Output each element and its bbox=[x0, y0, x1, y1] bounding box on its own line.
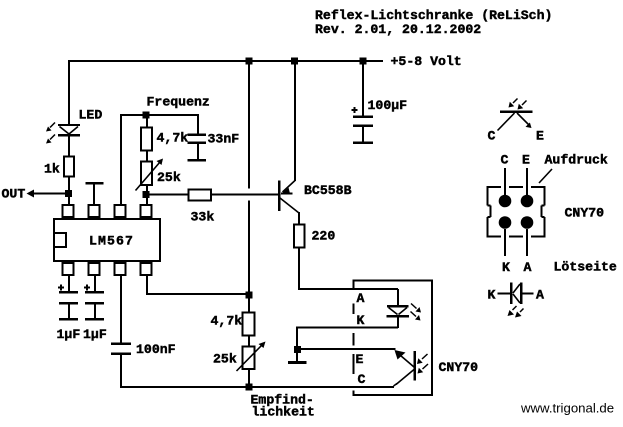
wire: pin 7 down to C3 bbox=[120, 275, 122, 343]
wire: K to ground corner bbox=[297, 328, 398, 351]
wire: junction right then down to C5 bbox=[147, 115, 198, 134]
svg-text:Frequenz: Frequenz bbox=[147, 95, 210, 110]
wire: rail drop to R6 lower segment bbox=[248, 201, 250, 297]
svg-text:A: A bbox=[357, 291, 365, 306]
U1 bottom pin box 7 bbox=[115, 263, 126, 275]
Aufdruck pointer line bbox=[539, 169, 552, 183]
svg-text:25k: 25k bbox=[157, 170, 181, 185]
Q2 incident light arrows bbox=[417, 354, 428, 374]
svg-text:LM567: LM567 bbox=[89, 234, 134, 249]
package pin stubs bbox=[505, 168, 527, 256]
CNY70 package outline bbox=[488, 186, 546, 238]
wire: node down to pin 4 bbox=[146, 198, 148, 206]
svg-text:220: 220 bbox=[312, 229, 336, 244]
transistor Q1 BC558B bbox=[279, 62, 299, 225]
svg-text:33k: 33k bbox=[191, 210, 215, 225]
svg-text:Rev. 2.01, 20.12.2002: Rev. 2.01, 20.12.2002 bbox=[315, 22, 481, 37]
OUT arrowhead bbox=[27, 190, 35, 198]
potentiometer R7 25k bbox=[237, 342, 266, 372]
node: rail junction to R6 chain bbox=[246, 58, 253, 65]
U1 top pin box 2 bbox=[89, 205, 100, 217]
svg-text:K: K bbox=[357, 313, 365, 328]
svg-text:1k: 1k bbox=[44, 162, 60, 177]
svg-text:C: C bbox=[488, 129, 496, 144]
svg-text:lichkeit: lichkeit bbox=[252, 405, 315, 420]
node: ground junction bbox=[294, 346, 301, 353]
svg-text:+5-8 Volt: +5-8 Volt bbox=[391, 54, 462, 69]
U1 top pin box 3 bbox=[115, 205, 126, 217]
node: rail junction to Q1 emitter bbox=[291, 58, 298, 65]
wire: R2 to R3 bbox=[146, 150, 148, 162]
node: R3 / R4 / pin4 junction bbox=[143, 191, 150, 198]
wire: R3 to node bbox=[146, 185, 148, 193]
svg-text:Lötseite: Lötseite bbox=[554, 260, 617, 275]
U1 bottom pin box 6 bbox=[89, 263, 100, 275]
diode emission arrows bbox=[508, 306, 524, 318]
svg-text:Aufdruck: Aufdruck bbox=[545, 153, 608, 168]
LED D1 bbox=[58, 125, 80, 156]
capacitor C3 100nF bbox=[111, 344, 131, 389]
svg-text:1µF: 1µF bbox=[83, 327, 107, 342]
svg-text:K: K bbox=[488, 288, 496, 303]
package pads bbox=[499, 195, 534, 229]
svg-text:4,7k: 4,7k bbox=[211, 314, 243, 329]
wire: R7 to bottom node bbox=[248, 368, 250, 387]
resistor R2 4,7k bbox=[141, 128, 152, 151]
svg-text:www.trigonal.de: www.trigonal.de bbox=[520, 401, 614, 416]
label: Empfindlichkeit bbox=[251, 393, 315, 420]
svg-text:E: E bbox=[356, 352, 364, 367]
ground terminal bbox=[288, 353, 307, 363]
capacitor C2 1uF bbox=[84, 275, 104, 319]
wire: OUT stub bbox=[33, 193, 66, 195]
svg-text:BC558B: BC558B bbox=[304, 183, 352, 198]
svg-text:A: A bbox=[524, 260, 532, 275]
capacitor C1 1uF bbox=[58, 275, 78, 319]
svg-text:Reflex-Lichtschranke (ReLiSch): Reflex-Lichtschranke (ReLiSch) bbox=[315, 8, 552, 23]
svg-text:LED: LED bbox=[79, 108, 103, 123]
node: Empfindlichkeit junction bbox=[246, 384, 253, 391]
CNY70 box dashed left edge bbox=[353, 281, 355, 395]
wire: R4 to Q1 base bbox=[212, 194, 279, 196]
wire: left rail drop to LED bbox=[68, 60, 70, 125]
CNY70 box outline bbox=[353, 280, 434, 396]
svg-text:C: C bbox=[358, 372, 366, 387]
svg-text:100µF: 100µF bbox=[368, 98, 408, 113]
capacitor C4 100uF bbox=[352, 62, 374, 143]
wire: bottom rail C3 to CNY70 collector bbox=[121, 386, 395, 388]
pinout: phototransistor top symbol bbox=[498, 112, 533, 131]
title text bbox=[315, 8, 552, 37]
D2 emission arrows bbox=[411, 304, 422, 321]
svg-text:C: C bbox=[501, 153, 509, 168]
potentiometer R3 25k bbox=[136, 159, 164, 191]
svg-text:CNY70: CNY70 bbox=[439, 360, 479, 375]
svg-text:E: E bbox=[522, 153, 530, 168]
wire: E to phototransistor bbox=[297, 348, 396, 350]
svg-text:1µF: 1µF bbox=[57, 327, 81, 342]
U1 top pin box 1 bbox=[63, 205, 74, 217]
wire: R5 to CNY70 LED anode bbox=[299, 247, 398, 289]
node: R6 top junction bbox=[246, 292, 253, 299]
wire: node to R6 bbox=[248, 298, 250, 313]
wire: node to R4 bbox=[149, 194, 189, 196]
LED D1 emission arrows bbox=[46, 123, 55, 144]
resistor R1 1k bbox=[64, 157, 74, 177]
wire: junction to R2 bbox=[146, 115, 148, 128]
pinout: top symbol light arrows bbox=[509, 99, 527, 110]
wire: R1 to OUT node bbox=[68, 177, 70, 191]
svg-text:33nF: 33nF bbox=[208, 132, 240, 147]
svg-text:25k: 25k bbox=[213, 352, 237, 367]
resistor R4 33k bbox=[189, 190, 212, 201]
svg-text:100nF: 100nF bbox=[136, 342, 176, 357]
node: Frequenz junction bbox=[143, 112, 150, 119]
svg-text:E: E bbox=[536, 129, 544, 144]
U1 bottom pin box 8 bbox=[141, 263, 152, 275]
U1 top pin box 4 bbox=[141, 205, 152, 217]
wire: pin 8 down and right to R6 node bbox=[147, 275, 249, 294]
wire: +V top supply rail bbox=[68, 60, 383, 62]
resistor R6 4,7k bbox=[243, 313, 255, 336]
node: OUT junction bbox=[65, 190, 72, 197]
resistor R5 220 bbox=[294, 225, 305, 248]
U1 bottom pin box 5 bbox=[63, 263, 74, 275]
wire: junction left then down to pin 3 bbox=[121, 115, 147, 206]
CNY70 internal LED D2 bbox=[387, 289, 410, 328]
no-connect T terminal above pin 2 bbox=[86, 183, 104, 206]
svg-text:4,7k: 4,7k bbox=[157, 131, 189, 146]
svg-text:OUT: OUT bbox=[2, 187, 26, 202]
phototransistor Q2 bbox=[394, 350, 415, 386]
IC U1 notch bbox=[54, 233, 66, 247]
svg-text:K: K bbox=[502, 260, 510, 275]
capacitor C5 33nF bbox=[188, 135, 207, 161]
wire: OUT node to U1 pin box bbox=[68, 197, 70, 206]
pinout: LED symbol K-A bbox=[498, 283, 534, 305]
svg-text:CNY70: CNY70 bbox=[565, 206, 605, 221]
svg-text:A: A bbox=[536, 288, 544, 303]
node: rail junction to C4 bbox=[360, 58, 367, 65]
wire: R6 to R7 bbox=[248, 335, 250, 347]
IC U1 LM567 body bbox=[54, 219, 160, 261]
wire: rail drop to R6 upper segment bbox=[248, 62, 250, 189]
